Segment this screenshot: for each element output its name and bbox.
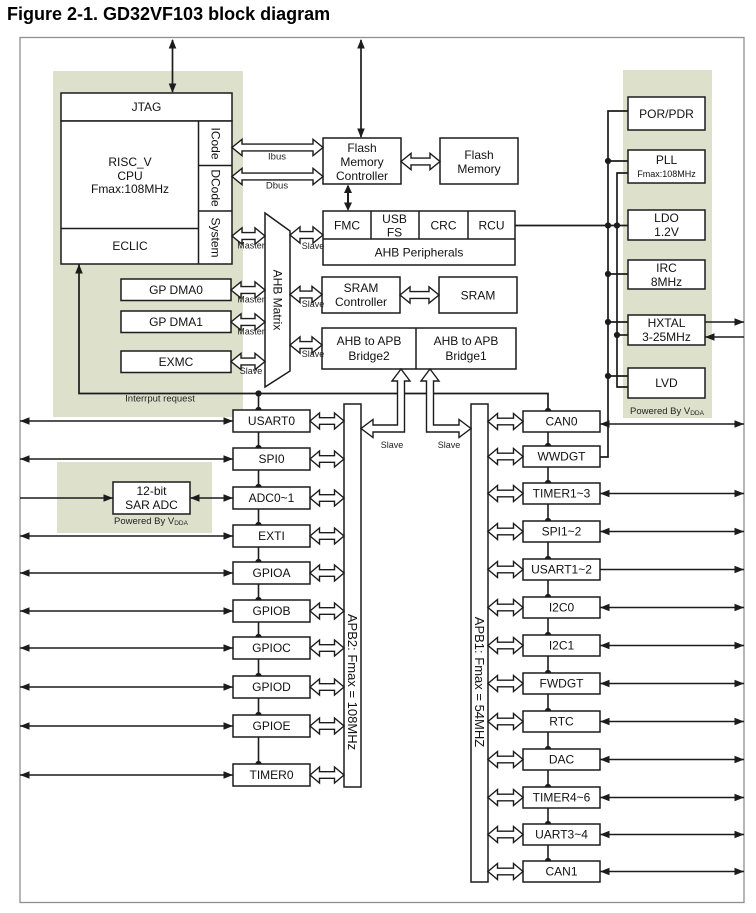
svg-text:LDO: LDO	[654, 211, 679, 225]
svg-text:1.2V: 1.2V	[654, 225, 679, 239]
junction dots chain left	[255, 390, 261, 767]
svg-text:I2C0: I2C0	[549, 601, 575, 615]
svg-text:TIMER0: TIMER0	[249, 768, 293, 782]
box Flash Memory Controller	[323, 138, 401, 184]
box Flash Memory	[440, 138, 518, 184]
svg-text:TIMER1~3: TIMER1~3	[533, 487, 591, 501]
svg-text:EXTI: EXTI	[258, 529, 285, 543]
svg-text:IRC: IRC	[656, 261, 677, 275]
svg-text:GPIOC: GPIOC	[252, 641, 291, 655]
svg-text:USB: USB	[382, 212, 407, 226]
svg-text:Memory: Memory	[340, 155, 383, 169]
arrows left peripherals to frame	[20, 417, 233, 779]
divider ICode/DCode	[199, 165, 233, 167]
box CAN0	[523, 411, 600, 432]
svg-text:GPIOA: GPIOA	[252, 566, 290, 580]
svg-text:CPU: CPU	[117, 169, 142, 183]
box GPIOB	[233, 600, 310, 622]
svg-text:Figure 2-1. GD32VF103 block di: Figure 2-1. GD32VF103 block diagram	[7, 4, 330, 24]
svg-text:SRAM: SRAM	[344, 281, 379, 295]
box AHB Peripherals	[323, 211, 515, 265]
box CAN1	[523, 861, 600, 882]
wire clock-reset tree secondary (PLL to LVD)	[617, 173, 628, 387]
shaded region CPU core (powered area)	[53, 71, 243, 417]
svg-text:I2C1: I2C1	[549, 639, 575, 653]
box LVD	[628, 368, 705, 398]
svg-text:GP DMA0: GP DMA0	[149, 283, 203, 297]
svg-text:3-25MHz: 3-25MHz	[642, 330, 691, 344]
svg-text:Dbus: Dbus	[266, 181, 288, 192]
label AHB to APB Bridge1	[434, 334, 499, 363]
bus bar APB2	[344, 404, 361, 787]
svg-text:FS: FS	[387, 226, 402, 240]
svg-text:DCode: DCode	[209, 169, 223, 207]
box PLL	[628, 150, 705, 183]
box GPIOE	[233, 715, 310, 737]
svg-text:Slave: Slave	[302, 299, 325, 309]
svg-text:Master: Master	[237, 295, 265, 305]
arrow frame to SAR ADC	[20, 497, 113, 499]
wire RCU to LDO	[515, 225, 628, 227]
AHB Matrix trapezoid	[265, 213, 290, 387]
box GP DMA0	[121, 279, 231, 301]
svg-text:RCU: RCU	[479, 219, 505, 233]
svg-text:LVD: LVD	[655, 376, 678, 390]
divider bridge2/bridge1	[415, 328, 417, 369]
bus arrow System to AHB Matrix	[232, 228, 265, 244]
bus arrow Dbus	[232, 168, 323, 184]
arrow HXTAL output to frame	[705, 321, 744, 323]
label RISC_V CPU Fmax	[91, 155, 169, 196]
shaded region clock-reset (powered by VDDA)	[623, 70, 712, 418]
svg-text:Slave: Slave	[438, 440, 461, 450]
svg-text:GPIOD: GPIOD	[252, 680, 291, 694]
svg-text:WWDGT: WWDGT	[538, 450, 587, 464]
box UART3~4	[523, 824, 600, 845]
box USART1~2	[523, 559, 600, 580]
svg-text:Master: Master	[237, 327, 265, 337]
wire stub to LVD	[608, 375, 628, 377]
svg-text:UART3~4: UART3~4	[535, 828, 588, 842]
divider DCode/System	[199, 210, 233, 212]
bus arrow Bridge2 to APB2 (slave path)	[361, 369, 410, 438]
shaded region ADC (powered by VDDA)	[57, 462, 212, 533]
wire clock-reset tree main (POR to WWDGT)	[600, 111, 628, 457]
bus bar APB1	[471, 404, 488, 882]
box TIMER4~6	[523, 787, 600, 808]
svg-text:CAN0: CAN0	[545, 415, 577, 429]
divider CPU/ECLIC	[61, 228, 199, 230]
svg-text:POR/PDR: POR/PDR	[639, 107, 694, 121]
svg-text:SPI0: SPI0	[258, 452, 284, 466]
svg-text:Master: Master	[237, 241, 265, 251]
wire stub to HXTAL lower	[617, 334, 628, 336]
bus arrow FMC to Flash Memory	[401, 153, 440, 169]
box HXTAL 3-25MHz	[628, 315, 705, 345]
box SRAM	[439, 277, 517, 313]
box GPIOA	[233, 562, 310, 584]
svg-text:APB1: Fmax = 54MHZ: APB1: Fmax = 54MHZ	[472, 617, 487, 747]
bus arrow Ibus	[232, 139, 323, 155]
wire stub to HXTAL upper	[608, 321, 628, 323]
svg-text:Bridge1: Bridge1	[445, 349, 487, 363]
box WWDGT	[523, 446, 600, 467]
svg-text:Slave: Slave	[302, 241, 325, 251]
bus arrow GP DMA1 to AHB Matrix	[231, 314, 265, 330]
svg-text:USART1~2: USART1~2	[531, 563, 592, 577]
svg-text:AHB Peripherals: AHB Peripherals	[375, 246, 464, 260]
svg-text:ICode: ICode	[209, 127, 223, 159]
box AHB to APB bridges	[322, 328, 516, 369]
box GPIOD	[233, 676, 310, 698]
svg-text:RTC: RTC	[549, 715, 574, 729]
svg-text:USART0: USART0	[248, 414, 295, 428]
box I2C0	[523, 597, 600, 618]
bus arrow AHB Matrix to bridges	[290, 337, 322, 353]
box GPIOC	[233, 637, 310, 659]
box 12-bit SAR ADC	[113, 482, 190, 514]
arrow Flash Memory Controller to frame (bidirectional)	[360, 40, 362, 137]
svg-text:JTAG: JTAG	[132, 100, 162, 114]
svg-text:12-bit: 12-bit	[136, 484, 167, 498]
svg-text:APB2: Fmax = 108MHz: APB2: Fmax = 108MHz	[345, 614, 360, 750]
svg-text:DAC: DAC	[549, 753, 575, 767]
box POR/PDR	[628, 97, 705, 130]
svg-text:SRAM: SRAM	[461, 289, 496, 303]
box RISC_V CPU core	[61, 121, 232, 264]
box SPI1~2	[523, 521, 600, 542]
svg-text:Fmax:108MHz: Fmax:108MHz	[91, 182, 169, 196]
box LDO 1.2V	[628, 210, 705, 240]
box SPI0	[233, 448, 310, 470]
junction dots chain right	[545, 408, 551, 864]
svg-text:CAN1: CAN1	[545, 865, 577, 879]
svg-text:Interrput request: Interrput request	[125, 394, 195, 405]
bus arrow AHB Matrix to SRAM Controller	[290, 286, 322, 302]
svg-text:AHB to APB: AHB to APB	[337, 334, 402, 348]
box FWDGT	[523, 673, 600, 694]
svg-text:RISC_V: RISC_V	[108, 155, 151, 169]
bus arrow GP DMA0 to AHB Matrix	[231, 282, 265, 298]
svg-text:Bridge2: Bridge2	[348, 349, 390, 363]
svg-text:Ibus: Ibus	[268, 152, 286, 163]
svg-text:PLL: PLL	[656, 153, 678, 167]
box EXMC	[121, 351, 231, 373]
svg-text:Slave: Slave	[240, 366, 263, 376]
divider CPU/bus column	[198, 121, 200, 264]
svg-text:Flash: Flash	[464, 148, 493, 162]
svg-text:GPIOE: GPIOE	[252, 719, 290, 733]
wire peripheral chain left (x=258.5)	[258, 394, 260, 411]
arrow CAN0 to frame	[600, 423, 744, 425]
svg-text:8MHz: 8MHz	[651, 275, 682, 289]
junction dots clock tree	[605, 158, 620, 379]
svg-text:SAR ADC: SAR ADC	[125, 498, 178, 512]
arrow frame to HXTAL input	[705, 336, 744, 338]
box RTC	[523, 711, 600, 732]
arrows right peripherals to frame	[600, 490, 744, 876]
bus arrow EXMC to AHB Matrix	[231, 353, 265, 369]
box IRC 8MHz	[628, 260, 705, 289]
arrow SAR ADC to ADC0-1 (bidirectional)	[190, 497, 233, 499]
svg-text:Fmax:108MHz: Fmax:108MHz	[637, 169, 696, 179]
svg-text:AHB to APB: AHB to APB	[434, 334, 499, 348]
bus arrows APB1 to right peripherals	[488, 414, 523, 880]
bus arrow AHB Matrix to AHB Peripherals	[290, 227, 323, 243]
arrow FMC to AHB peripherals (bidirectional)	[347, 186, 349, 209]
box DAC	[523, 749, 600, 770]
svg-text:Flash: Flash	[347, 141, 376, 155]
svg-text:TIMER4~6: TIMER4~6	[533, 791, 591, 805]
svg-text:HXTAL: HXTAL	[648, 316, 686, 330]
box JTAG	[61, 93, 232, 121]
svg-text:Slave: Slave	[302, 349, 325, 359]
bus arrow Bridge1 to APB1 (slave path)	[421, 369, 471, 438]
svg-text:FMC: FMC	[334, 219, 360, 233]
box TIMER1~3	[523, 483, 600, 504]
svg-text:ADC0~1: ADC0~1	[249, 491, 295, 505]
divider AHB peripherals cells	[323, 211, 515, 239]
svg-text:FWDGT: FWDGT	[540, 677, 585, 691]
box GP DMA1	[121, 311, 231, 333]
box USART0	[233, 410, 310, 432]
wire stub to IRC	[608, 273, 628, 275]
svg-text:System: System	[209, 217, 223, 257]
wire peripheral chain right (x=548)	[547, 432, 549, 861]
svg-text:Slave: Slave	[381, 440, 404, 450]
svg-text:ECLIC: ECLIC	[112, 239, 148, 253]
wire interrupt request (ECLIC to peripherals)	[79, 264, 548, 411]
svg-text:GPIOB: GPIOB	[252, 604, 290, 618]
label AHB to APB Bridge2	[337, 334, 402, 363]
box EXTI	[233, 525, 310, 547]
label USB FS	[382, 212, 407, 240]
box I2C1	[523, 635, 600, 656]
svg-text:AHB Matrix: AHB Matrix	[271, 270, 285, 331]
svg-text:CRC: CRC	[431, 219, 457, 233]
box TIMER0	[233, 764, 310, 786]
svg-text:Memory: Memory	[457, 162, 500, 176]
wire stub to PLL	[608, 160, 628, 162]
svg-text:Controller: Controller	[336, 169, 388, 183]
svg-text:EXMC: EXMC	[159, 355, 194, 369]
box ADC0~1	[233, 487, 310, 509]
bus arrow SRAM Controller to SRAM	[400, 287, 439, 303]
arrow JTAG to frame (bidirectional)	[172, 40, 174, 92]
svg-text:GP DMA1: GP DMA1	[149, 315, 203, 329]
svg-text:SPI1~2: SPI1~2	[542, 525, 582, 539]
bus arrows left peripherals to APB2	[310, 413, 344, 783]
svg-text:Controller: Controller	[335, 295, 387, 309]
box SRAM Controller	[322, 277, 400, 313]
